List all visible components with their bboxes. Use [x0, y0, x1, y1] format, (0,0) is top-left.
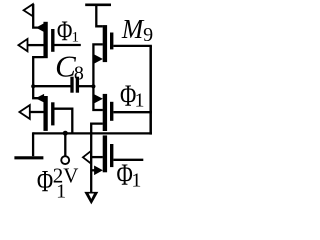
wire M5 source lead	[91, 169, 97, 171]
transistor M1 gate bar	[51, 29, 54, 52]
wire M2 gate to bus	[55, 109, 73, 134]
wire capacitor to node B	[79, 85, 93, 87]
svg-text:9: 9	[143, 24, 153, 46]
wire node A to capacitor C8	[33, 85, 70, 87]
label Phi1 2V	[37, 163, 79, 202]
transistor M4 channel bar	[103, 94, 107, 131]
transistor M5 channel bar	[103, 135, 107, 172]
bus wire (Phi1 2V gate node)	[33, 132, 152, 134]
wire M4 gate to right vertical	[114, 111, 152, 113]
svg-text:1: 1	[131, 169, 141, 191]
junction dot bus to 2V terminal	[63, 131, 68, 136]
label Phi1 (gate of M5)	[117, 158, 142, 192]
current arrow into M9 source (filled, pointing right)	[94, 54, 103, 63]
node bulk arrow M2 (hollow, left)	[19, 105, 29, 119]
svg-text:1: 1	[56, 181, 66, 203]
current arrow on M2 drain lead (filled, pointing left)	[36, 94, 45, 103]
transistor M2 channel bar	[43, 96, 47, 131]
wire hollow arrow to M2	[30, 111, 44, 113]
wire M9 source lead	[93, 58, 97, 60]
label Phi1 (gate of M4)	[120, 79, 145, 113]
wire bus left end down to ground	[32, 132, 34, 156]
ground arrow (filled, pointing down)	[84, 192, 98, 205]
wire node B riser (cap top plate to M9/M4)	[93, 44, 102, 110]
transistor M5 gate bar	[110, 144, 113, 167]
label C8	[55, 49, 84, 85]
node arrow (hollow, pointing left at wire)	[83, 151, 91, 163]
current arrow into M4 drain (filled, pointing right)	[94, 94, 103, 103]
ground symbol (left)	[14, 156, 43, 159]
node IN1 hollow arrow (top-left)	[24, 4, 33, 16]
svg-text:Φ: Φ	[117, 158, 133, 192]
transistor M2 gate bar	[51, 102, 54, 125]
transistor M9 channel bar	[103, 25, 107, 62]
label Phi1 (gate of M1)	[57, 15, 79, 47]
svg-text:1: 1	[72, 30, 80, 46]
svg-text:8: 8	[74, 62, 84, 84]
transistor M4 gate bar	[110, 102, 113, 121]
wire M9 gate to right vertical	[114, 45, 152, 47]
transistor M9 gate bar	[110, 33, 113, 50]
ground arrow notch	[89, 194, 94, 199]
wire VDD stem to M9 drain	[96, 5, 103, 27]
wire right vertical (gate bus riser)	[149, 46, 152, 135]
transistor M5 gate stub	[114, 159, 144, 161]
wire M4 source down the left side	[91, 124, 103, 194]
svg-text:1: 1	[135, 90, 145, 112]
wire from IN1 down and right to M1 drain	[33, 4, 43, 28]
wire M5 drain lead	[91, 156, 103, 158]
svg-text:Φ: Φ	[57, 15, 73, 47]
supply rail T-bar (VDD)	[85, 4, 111, 7]
svg-text:Φ: Φ	[37, 164, 53, 198]
wire hollow arrow to M1	[28, 44, 44, 46]
transistor M1 gate stub	[55, 44, 81, 46]
transistor M1 channel bar	[43, 22, 47, 58]
label M9	[121, 14, 153, 46]
wire bus to 2V terminal	[64, 133, 66, 156]
capacitor C8 plates	[72, 77, 77, 93]
junction node A dot (cap left)	[31, 84, 35, 88]
current arrow on M1 drain lead (filled, pointing left)	[36, 23, 45, 32]
svg-text:M: M	[121, 14, 145, 44]
wire M1 source down-left to node A	[33, 57, 43, 98]
current arrow into M5 source (filled, pointing right)	[94, 166, 103, 176]
node bulk arrow (hollow, mid-left)	[18, 39, 27, 51]
2V terminal circle	[61, 156, 69, 164]
junction node B dot (cap right)	[91, 84, 95, 88]
